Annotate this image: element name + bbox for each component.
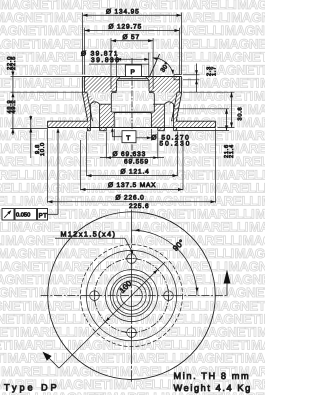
section hatch: right wall/slot shoulder	[166, 92, 177, 104]
hub outer wall right (double)	[181, 77, 183, 94]
dimension 21.6/21.4	[174, 108, 229, 110]
bolt circle Ø100 (dash-dot)	[95, 259, 169, 333]
bolt hole slot left	[89, 104, 91, 131]
svg-text:9.8: 9.8	[35, 144, 41, 154]
dimension Ø226.0/225.6	[47, 128, 49, 202]
bolt hole 3	[127, 328, 137, 338]
svg-text:Ø 226.0: Ø 226.0	[116, 195, 145, 202]
section viewing arrow lower-left	[44, 354, 59, 369]
bore shoulder right	[149, 90, 154, 92]
bolt hole slot right	[163, 104, 165, 131]
svg-text:22.0: 22.0	[7, 56, 13, 70]
flange outer edge right	[176, 128, 178, 131]
90 degree arc dimension	[132, 230, 198, 296]
dimension Ø50.270/50.230	[113, 129, 115, 141]
bore Ø39.871 left wall	[116, 80, 118, 91]
bore Ø50.27 right wall	[150, 113, 152, 114]
recess ceiling left	[106, 126, 114, 128]
svg-text:Ø 129.75: Ø 129.75	[109, 24, 143, 31]
bore chamfer back edge	[117, 79, 149, 81]
dimension 10.0/9.8 plate thickness	[30, 116, 32, 159]
dashed circle Ø137.5 max	[81, 245, 183, 347]
bolt circle dimension Ø100 diagonal line	[59, 262, 165, 368]
datum box T	[122, 131, 136, 143]
wall slant left	[83, 94, 88, 122]
extension lines left	[11, 76, 83, 78]
front view horizontal centerline	[41, 295, 228, 297]
svg-text:T: T	[126, 135, 131, 142]
svg-text:Ø 134.95: Ø 134.95	[106, 8, 140, 15]
bore Ø50.27 left wall	[114, 113, 116, 114]
flange top face right	[153, 103, 164, 105]
svg-text:69.559: 69.559	[124, 159, 149, 166]
svg-text:1.7: 1.7	[211, 66, 217, 76]
svg-text:Type DP: Type DP	[4, 383, 60, 393]
plate bottom	[48, 127, 216, 129]
section hatch: right wall	[172, 92, 182, 121]
wall slant right	[176, 94, 181, 122]
dimension Ø57	[111, 40, 153, 42]
dimension Ø129.75	[85, 30, 180, 32]
svg-text:M12x1.5(x4): M12x1.5(x4)	[61, 230, 117, 239]
hub outer wall left (double)	[82, 77, 84, 94]
flange bottom face left	[87, 130, 90, 132]
dimension Ø134.95	[83, 14, 182, 16]
svg-text:Ø 69.633: Ø 69.633	[113, 151, 147, 158]
bolt hole 4	[90, 291, 100, 301]
hub circle inner chamfer	[121, 285, 143, 307]
section hatch: plate left	[48, 121, 91, 127]
dimension 22.5/22.0 and 49.2/48.9	[12, 66, 14, 135]
svg-text:PT: PT	[39, 212, 48, 219]
section hatch: top ring left	[85, 77, 121, 93]
plate right edge	[215, 121, 217, 127]
svg-text:Ø 57: Ø 57	[123, 34, 141, 41]
bore chamfer mid shade	[119, 77, 147, 79]
bore Ø57 left wall	[111, 93, 113, 95]
svg-text:Weight 4.4 Kg: Weight 4.4 Kg	[174, 383, 252, 393]
section centerline	[131, 58, 133, 163]
section hatch: top ring right	[145, 77, 179, 93]
svg-text:Ø 137.5 MAX: Ø 137.5 MAX	[108, 182, 156, 189]
bore shoulder left	[111, 90, 116, 92]
30deg chamfer callout	[149, 54, 159, 77]
dimension Ø121.4	[86, 132, 88, 177]
svg-text:Min. TH 8 mm: Min. TH 8 mm	[174, 371, 251, 381]
bolt hole 2	[164, 291, 174, 301]
bore chamfer left	[117, 77, 121, 81]
svg-text:225.6: 225.6	[129, 203, 150, 210]
runout leader to braking surface	[48, 213, 59, 215]
svg-text:48.9: 48.9	[7, 100, 13, 114]
datum T leader	[112, 136, 122, 138]
svg-text:39.838: 39.838	[91, 57, 120, 64]
bore step lower edge	[114, 112, 151, 114]
svg-text:P: P	[131, 69, 136, 76]
flange bottom face right	[158, 130, 165, 132]
svg-text:50.230: 50.230	[160, 141, 192, 148]
section hatch: flange left inner	[100, 104, 115, 131]
runout feature control frame 0.050 PT	[2, 209, 14, 221]
section viewing arrow right	[226, 283, 228, 296]
section hatch: flange right inner	[151, 104, 164, 131]
recess ceiling right	[151, 126, 157, 128]
hub rim step line right	[174, 74, 182, 76]
dimension Ø69.633/69.559	[105, 132, 107, 159]
recess Ø69.633 right wall	[157, 127, 159, 130]
hub circle Ø50.27	[113, 277, 150, 314]
bore Ø57 right wall	[152, 93, 154, 95]
plate left edge	[47, 121, 49, 127]
circle Ø121.4 flange	[86, 250, 176, 340]
flange top face left	[89, 103, 91, 105]
hub circle Ø69.6	[106, 270, 158, 322]
svg-text:30.6: 30.6	[238, 107, 244, 121]
section hatch: plate right	[174, 121, 216, 127]
front view vertical centerline	[131, 210, 133, 382]
hub circle Ø57	[110, 275, 152, 317]
dimension 30.6	[183, 91, 235, 93]
svg-text:21.4: 21.4	[229, 144, 235, 158]
bore chamfer right	[145, 77, 149, 81]
outer circle Ø226	[48, 212, 216, 380]
hub top face	[83, 76, 182, 78]
plate top right	[176, 120, 216, 122]
datum box P	[126, 65, 142, 77]
bore Ø39.871 right wall	[148, 80, 150, 91]
svg-text:Ø 121.4: Ø 121.4	[121, 168, 150, 175]
hub wall step tick right	[177, 91, 181, 93]
bolt hole 1	[127, 254, 137, 264]
section hatch: left wall	[83, 92, 93, 121]
svg-text:0.050: 0.050	[16, 213, 30, 219]
plate top left	[48, 120, 89, 122]
section hatch: left wall/slot shoulder	[87, 92, 98, 104]
hub wall step tick left	[83, 91, 87, 93]
dimension 2.3/1.7 right step	[183, 74, 200, 76]
recess Ø69.633 left wall	[105, 127, 107, 130]
flange outer edge left	[86, 128, 88, 131]
bore step Ø50.27 seat	[111, 111, 154, 113]
hub rim step inner edge right	[174, 79, 180, 81]
section hatch: flange left outer sliver	[87, 121, 90, 130]
hub circle Ø39.87 bore	[117, 281, 146, 310]
dimension Ø137.5 MAX	[80, 140, 82, 190]
section hatch: flange right outer sliver	[174, 121, 177, 130]
